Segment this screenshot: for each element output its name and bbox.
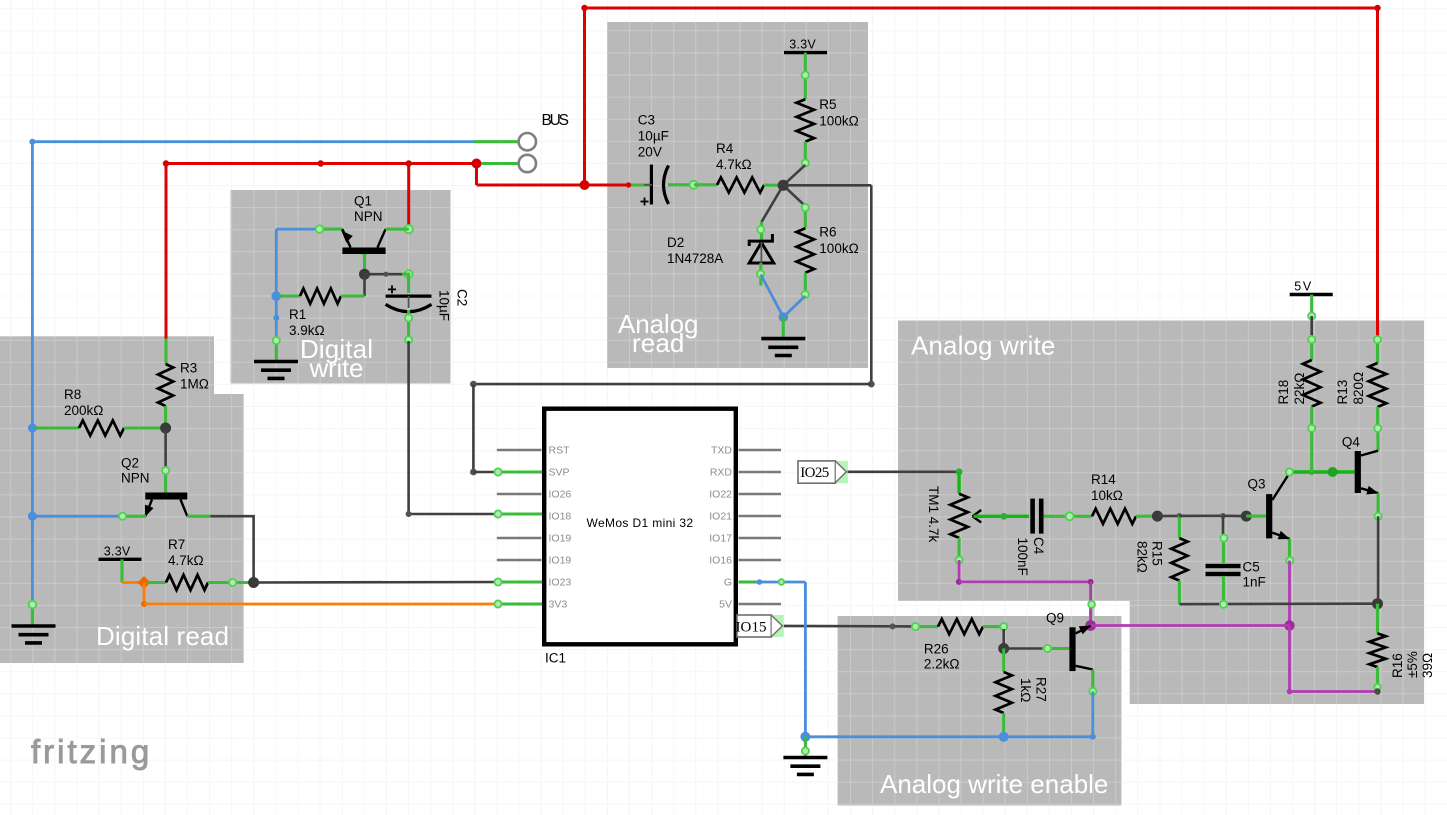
junction dark bend C2 — [383, 272, 388, 277]
junction green Q2 collector — [162, 467, 169, 474]
junction green C2 corner — [405, 270, 413, 278]
junction green GND4 — [273, 337, 280, 344]
junction blue R8 — [28, 424, 37, 433]
junction green 5V — [1308, 312, 1315, 319]
IC1 pin labels — [549, 445, 733, 611]
svg-text:IO15: IO15 — [736, 619, 767, 635]
svg-text:TXD: TXD — [711, 445, 732, 457]
junction dark bend right — [868, 381, 875, 388]
wire green to ground GND1 — [31, 603, 34, 625]
label R27 — [1018, 677, 1049, 702]
label C5 — [1243, 560, 1266, 590]
junction green IO25 wire — [956, 468, 963, 475]
resistor R1 — [300, 289, 341, 304]
wire dark C5 drop — [1222, 516, 1225, 536]
net label IO15 flag — [736, 615, 784, 637]
wire dark base to R1 — [363, 274, 366, 296]
junction green SVP — [494, 468, 501, 475]
junction green D2 top — [757, 226, 764, 233]
wire dark Q2 emitter to IO23 — [211, 516, 254, 582]
panel Analog write — [898, 321, 1424, 705]
wire purple right drop — [1288, 626, 1291, 692]
junction green Q2 base — [119, 513, 126, 520]
svg-text:R18: R18 — [1276, 380, 1291, 405]
wire dark to IO23 — [254, 581, 497, 584]
junction green C2 exit — [405, 336, 412, 343]
wire green R13 top — [1376, 339, 1379, 364]
ground GND4 — [254, 362, 298, 379]
wire green to ground GND4 — [275, 339, 278, 361]
wire dark R5 diagonal — [783, 165, 805, 185]
wire red bus horizontal — [166, 162, 477, 165]
wire green R27 bottom — [1002, 713, 1005, 737]
junction Q9 base node — [998, 643, 1009, 654]
wire dark SVP drop — [472, 384, 475, 472]
junction blue R1 — [272, 291, 282, 301]
junction orange bend — [141, 601, 147, 607]
junction Q3 base node — [1241, 511, 1252, 522]
junction green R18 mid — [1308, 425, 1315, 432]
junction green R5 bottom — [802, 159, 809, 166]
wire purple horizontal — [959, 581, 1091, 584]
junction green GND1 — [29, 601, 37, 609]
transistor Q3 — [1266, 473, 1290, 539]
svg-text:IO19: IO19 — [549, 555, 572, 567]
junction orange R7 — [137, 576, 150, 589]
wire green R6 top — [804, 206, 807, 228]
junction red C3 — [626, 182, 631, 187]
resistor R16 — [1369, 633, 1385, 667]
junction green C4 right — [1066, 512, 1074, 520]
wire green to ground GND2 — [782, 317, 785, 337]
svg-text:R5: R5 — [819, 97, 836, 112]
wire dark Q4 emitter drop — [1377, 516, 1380, 603]
wire blue G drop — [804, 582, 807, 737]
wire dark base run 2 — [1179, 514, 1223, 517]
wire green Q3 collector corner — [1290, 472, 1355, 473]
wire green TM1 top — [957, 472, 960, 494]
wire dark bottom horizontal — [1179, 602, 1377, 605]
svg-text:±5%: ±5% — [1405, 651, 1420, 678]
label R18 — [1276, 373, 1307, 405]
svg-text:IO18: IO18 — [549, 511, 572, 523]
wire blue Q2 base — [32, 515, 121, 518]
junction green IO23 — [494, 578, 501, 585]
wire red R3 drop — [165, 164, 168, 339]
junction green Q9 collector — [1089, 688, 1096, 695]
ground GND2 — [761, 339, 805, 356]
wire green Q2 base — [121, 515, 146, 518]
svg-text:Q2: Q2 — [121, 456, 139, 471]
svg-text:820Ω: 820Ω — [1351, 372, 1366, 405]
wire green IO18 stub — [497, 512, 542, 515]
junction purple TM1 — [956, 579, 962, 585]
svg-text:100kΩ: 100kΩ — [819, 113, 858, 128]
junction purple corner R16 — [1287, 689, 1293, 695]
wire blue G link — [755, 581, 806, 584]
resistor R18 — [1303, 360, 1321, 407]
label R16 — [1390, 651, 1435, 678]
wire dark Q9 base run — [1004, 647, 1042, 650]
svg-text:82kΩ: 82kΩ — [1135, 541, 1150, 573]
wire dark Q2 collector drop — [164, 428, 167, 469]
wire green Q9 base — [1042, 647, 1069, 650]
junction green purple mid — [1088, 601, 1095, 608]
wire green R16 top — [1376, 604, 1379, 634]
svg-text:R4: R4 — [716, 141, 734, 156]
wire green 3.3V drop — [120, 559, 123, 582]
junction dark R16 purple — [1374, 688, 1380, 694]
junction green G — [779, 579, 785, 585]
wire dark right vertical — [870, 185, 873, 384]
wire green C2 bottom — [407, 310, 410, 341]
label panel Analog read — [618, 309, 699, 358]
wire green to BUS pin 1 — [474, 140, 519, 143]
svg-text:1MΩ: 1MΩ — [180, 377, 209, 392]
wire green C5 top — [1222, 536, 1225, 563]
wire green G stub — [739, 580, 757, 583]
wire green R18 top — [1310, 338, 1313, 360]
junction blue ground analog read — [779, 312, 789, 322]
junction green R13 top — [1374, 336, 1381, 343]
wire green R4 right — [764, 183, 779, 186]
IC1 unconnected pin stubs — [497, 450, 781, 604]
svg-text:D2: D2 — [667, 235, 684, 250]
wire dark D2 diagonal — [762, 185, 784, 222]
junction green R7 right — [229, 579, 236, 586]
junction green C5 top — [1220, 535, 1227, 542]
svg-text:3.3V: 3.3V — [104, 544, 131, 558]
junction green R16 bottom — [1374, 684, 1380, 690]
svg-text:IO26: IO26 — [549, 489, 572, 501]
svg-text:R14: R14 — [1091, 472, 1116, 487]
junction green R26 left — [912, 623, 919, 630]
label R4 — [716, 141, 752, 172]
junction red Q1 tap — [406, 160, 412, 166]
wire dark base run 1 — [1157, 515, 1179, 518]
junction blue G — [757, 579, 763, 585]
wire blue bus horizontal — [32, 140, 474, 143]
junction dark IO23 node — [248, 577, 259, 588]
label R26 — [924, 642, 960, 672]
wire purple TM1 drop — [958, 560, 961, 582]
svg-text:R15: R15 — [1150, 541, 1165, 566]
svg-text:G: G — [724, 577, 732, 589]
junction green GND3 — [802, 747, 809, 754]
junction green R5 top — [802, 72, 809, 79]
wire green R3 top — [164, 339, 167, 365]
transistor Q1 — [341, 229, 385, 254]
wire orange to 3V3 pin — [144, 603, 497, 606]
svg-text:R3: R3 — [180, 361, 197, 376]
wire dark horizontal to SVP — [473, 383, 871, 386]
junction R14 node — [1152, 511, 1163, 522]
svg-text:write: write — [309, 353, 364, 383]
label R7 — [168, 537, 204, 568]
label R1 — [289, 307, 325, 338]
wire green C5 bottom — [1222, 576, 1225, 604]
label Q2 — [121, 456, 150, 486]
wire green R1 right — [341, 295, 365, 298]
junction green R13 bottom — [1374, 425, 1381, 432]
svg-text:R8: R8 — [64, 387, 81, 402]
junction green Q4 emitter — [1375, 513, 1382, 520]
wire green 5V drop — [1310, 295, 1313, 317]
wire red Q1 drop — [407, 164, 410, 230]
svg-text:100nF: 100nF — [1015, 538, 1030, 576]
junction dark IO18 bend — [406, 511, 412, 517]
capacitor C5 — [1206, 564, 1241, 576]
wire green R1 left — [280, 295, 300, 298]
junction blue Q9 end — [1090, 734, 1096, 740]
svg-text:IO21: IO21 — [709, 511, 732, 523]
junction analog read node — [778, 180, 789, 191]
junction green R18 lead — [1308, 336, 1315, 343]
wire dark IO15 run — [784, 625, 915, 628]
wire dark R26 drop — [1002, 629, 1005, 649]
junction green Q1 base pin — [361, 248, 367, 254]
power 5V — [1290, 280, 1333, 295]
junction green Q1 left — [316, 225, 324, 233]
svg-text:C4: C4 — [1031, 537, 1046, 555]
resistor R5 — [797, 99, 815, 141]
junction blue ground — [800, 732, 810, 742]
svg-text:20V: 20V — [638, 145, 662, 160]
wire dark C2 to IO18 — [409, 341, 497, 514]
wire dark to SVP pin — [473, 471, 496, 474]
wire green R27 top — [1002, 649, 1005, 673]
svg-text:Analog write enable: Analog write enable — [880, 769, 1108, 799]
wire green Q3 base — [1246, 515, 1266, 518]
svg-text:1kΩ: 1kΩ — [1018, 678, 1033, 702]
wire green R26 left — [915, 625, 939, 628]
svg-text:Q3: Q3 — [1248, 476, 1266, 491]
svg-text:IO23: IO23 — [549, 577, 572, 589]
wire green C3 right — [668, 183, 694, 186]
wire green R5 bottom — [804, 142, 807, 165]
wire green TM1 bottom — [958, 538, 961, 561]
node BUS pin 1 — [519, 133, 536, 150]
panel Analog read — [607, 22, 868, 368]
wire dark node to corner — [783, 184, 871, 187]
svg-text:IO19: IO19 — [549, 533, 572, 545]
junction green TM1 wiper — [1001, 513, 1008, 520]
svg-text:C2: C2 — [455, 289, 470, 306]
fritzing watermark — [31, 733, 152, 770]
junction green IO18 — [494, 510, 501, 517]
wire green R8 right — [124, 426, 163, 429]
resistor R8 — [79, 420, 124, 435]
svg-text:4.7kΩ: 4.7kΩ — [168, 553, 204, 568]
junction blue Q2 base — [28, 512, 37, 521]
ground GND1 — [12, 626, 56, 643]
junction purple Q9 emitter — [1085, 620, 1096, 631]
junction dark IO15 bend — [890, 623, 896, 629]
svg-text:TM1 4.7k: TM1 4.7k — [926, 486, 941, 543]
junction dark R16 node — [1372, 598, 1383, 609]
svg-text:Digital read: Digital read — [96, 621, 229, 651]
junction green TM1 bottom — [956, 556, 963, 563]
svg-text:C5: C5 — [1243, 560, 1260, 575]
junction green R6 bottom — [802, 291, 809, 298]
junction red top-right — [1374, 5, 1380, 11]
label C3 — [638, 113, 669, 160]
wire green R16 bottom — [1376, 667, 1379, 691]
wire green Q3 emitter — [1288, 539, 1291, 561]
svg-text:Q9: Q9 — [1046, 610, 1064, 625]
wire purple to R16 — [1290, 690, 1378, 693]
junction green Q9 base — [1044, 645, 1051, 652]
resistor R6 — [797, 228, 815, 272]
wire orange 3V3 drop — [143, 583, 146, 605]
svg-text:1N4728A: 1N4728A — [667, 251, 723, 266]
ground GND3 — [783, 758, 827, 775]
svg-text:39Ω: 39Ω — [1420, 653, 1435, 678]
wire green TM1 wiper — [974, 515, 1030, 518]
label C2 — [437, 289, 470, 321]
junction green Q3 collector — [1286, 468, 1293, 475]
svg-text:R26: R26 — [924, 642, 949, 657]
panel Digital write — [231, 190, 451, 384]
wire green IO23 stub — [497, 580, 542, 583]
svg-text:R13: R13 — [1335, 380, 1350, 405]
label R13 — [1335, 372, 1366, 405]
wire red to C3 — [477, 184, 629, 187]
svg-text:NPN: NPN — [354, 209, 383, 224]
wire green Q1 left — [320, 228, 343, 231]
svg-text:3V3: 3V3 — [549, 599, 568, 611]
junction dark C5 bottom — [1220, 600, 1228, 608]
wire blue Q1 base horizontal — [276, 228, 319, 231]
wire blue ground run — [805, 735, 1092, 738]
label R5 — [819, 97, 858, 129]
wire dark 5V link — [1310, 316, 1313, 338]
label R3 — [180, 361, 209, 392]
svg-text:R7: R7 — [168, 537, 185, 552]
label C4 — [1015, 537, 1046, 576]
potentiometer TM1 — [950, 494, 981, 538]
label panel Digital write — [300, 334, 373, 383]
junction blue top-left — [29, 139, 35, 145]
transistor Q9 — [1069, 626, 1092, 672]
resistor R3 — [158, 364, 173, 406]
svg-text:WeMos D1 mini 32: WeMos D1 mini 32 — [587, 516, 694, 530]
junction green C2 bottom — [405, 314, 412, 321]
power 3.3V analog read — [784, 38, 827, 53]
resistor R15 — [1171, 538, 1187, 581]
label R6 — [819, 225, 858, 257]
svg-text:5V: 5V — [1294, 280, 1312, 294]
svg-text:100kΩ: 100kΩ — [819, 241, 858, 256]
wire green R18 bottom — [1310, 407, 1313, 472]
junction dark SVP corner — [470, 469, 477, 476]
junction green C5 bottom — [1220, 601, 1227, 608]
junction purple bend — [1088, 579, 1094, 585]
wire purple Q3 emitter drop — [1288, 561, 1291, 626]
svg-text:Q4: Q4 — [1342, 434, 1361, 449]
wire green to ground GND3 — [804, 737, 807, 756]
svg-text:IO16: IO16 — [709, 555, 732, 567]
junction purple right — [1284, 620, 1294, 630]
svg-text:IO17: IO17 — [709, 533, 732, 545]
svg-text:4.7kΩ: 4.7kΩ — [716, 157, 752, 172]
wire green Q1 right — [386, 228, 409, 231]
wire green Q2 collector — [164, 469, 167, 493]
wire green C3 left — [628, 183, 650, 186]
wire dark base run 3 — [1223, 514, 1244, 517]
power 3V3 digital read — [99, 544, 142, 559]
capacitor C2 — [386, 285, 432, 311]
wire green Q2 emitter — [187, 515, 210, 518]
label R8 — [64, 387, 103, 418]
svg-text:R27: R27 — [1034, 677, 1049, 702]
wire green Q4 emitter — [1377, 493, 1380, 516]
wire dark node to C2 — [365, 273, 403, 276]
panel Digital read — [0, 336, 244, 663]
junction red top-left — [581, 5, 587, 11]
wire green to BUS pin 2 — [481, 162, 519, 165]
transistor Q2 — [145, 493, 187, 518]
wire red jog down — [475, 164, 478, 186]
svg-text:22kΩ: 22kΩ — [1292, 373, 1307, 405]
svg-text:5V: 5V — [719, 599, 732, 611]
junction green C3 right — [690, 181, 698, 189]
wire purple Q9 drop — [1089, 582, 1092, 626]
wire green R15 bottom — [1178, 581, 1181, 605]
junction red bend x320 — [318, 160, 324, 166]
wire green R7 left — [148, 581, 166, 584]
wire green R15 top — [1178, 516, 1181, 538]
wire orange 3.3V link — [122, 581, 144, 584]
svg-text:BUS: BUS — [542, 112, 570, 129]
svg-text:C3: C3 — [638, 113, 655, 128]
junction green Q1 right ring — [405, 225, 413, 233]
wire red right vertical — [1376, 8, 1379, 339]
wire green R6 bottom — [804, 273, 807, 296]
capacitor C3 — [641, 165, 669, 206]
junction blue R27 — [999, 732, 1009, 742]
panel sliver — [1089, 601, 1095, 625]
junction green D2 bottom — [757, 270, 764, 277]
resistor R4 — [717, 177, 764, 192]
wire red R13 feed — [1376, 337, 1379, 341]
wire green C2 top — [402, 274, 409, 293]
wire green D2 bottom — [759, 263, 762, 286]
wire dark R6 diagonal — [783, 185, 805, 206]
junction green Q3 emitter — [1286, 557, 1293, 564]
junction red BUS — [472, 159, 482, 169]
junction R15 tap — [1177, 513, 1183, 519]
junction blue small — [273, 315, 279, 321]
svg-text:RST: RST — [549, 445, 571, 457]
wire blue left vertical — [31, 142, 34, 603]
wire green 3V3 stub — [497, 602, 542, 605]
svg-text:R1: R1 — [289, 307, 306, 322]
wire green D2 top — [760, 222, 763, 241]
junction green Q4 base — [1328, 467, 1338, 477]
junction R3 R8 Q2 — [160, 423, 171, 434]
svg-text:Analog write: Analog write — [911, 330, 1055, 360]
wire green R26 right — [983, 627, 1004, 631]
wire green to R4 — [694, 183, 717, 186]
svg-text:Q1: Q1 — [354, 194, 372, 209]
wire blue R1 ground drop — [275, 296, 278, 339]
wire green R3 bottom — [164, 406, 167, 428]
svg-text:IO25: IO25 — [800, 465, 829, 481]
label Q1 — [354, 194, 383, 225]
wire green R8 left — [36, 426, 79, 429]
junction green R6 top — [802, 204, 809, 211]
